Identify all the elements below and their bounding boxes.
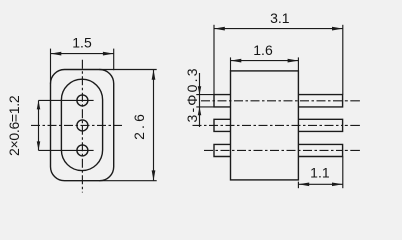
left pin 3 (bottom) xyxy=(214,144,231,156)
hole 1 (top) xyxy=(77,95,88,106)
front view inner stadium outline xyxy=(61,79,102,170)
dimension 2x0.6=1.2 (hole pitch) xyxy=(38,100,40,150)
top pin centerline right stub xyxy=(345,100,360,102)
dimension 1.5 (front view width) xyxy=(51,49,114,84)
svg-text:2.6: 2.6 xyxy=(131,111,147,140)
side view top pin centerline xyxy=(201,100,343,102)
svg-text:3.1: 3.1 xyxy=(270,10,290,26)
left pin 2 (middle) xyxy=(214,119,231,131)
hole 3 crosshair / extension line xyxy=(39,149,94,151)
hole 1 crosshair / extension line xyxy=(39,99,94,101)
dimension 3.1 (side view overall length) xyxy=(214,25,343,95)
left pin 1 (top) xyxy=(214,95,231,107)
svg-text:1.1: 1.1 xyxy=(310,164,330,180)
dimension 2.6 (front view height) xyxy=(99,70,157,181)
right pin 3 (bottom) xyxy=(298,144,342,156)
svg-text:2×0.6=1.2: 2×0.6=1.2 xyxy=(6,95,22,156)
svg-text:1.5: 1.5 xyxy=(72,35,92,51)
side view bottom pin centerline xyxy=(204,149,343,151)
hole 3 (bottom) xyxy=(77,145,88,156)
middle pin centerline right stub xyxy=(345,124,360,126)
side view middle pin centerline xyxy=(193,124,343,126)
front view vertical centerline xyxy=(81,60,83,193)
dimension 0.3 (pin thickness) xyxy=(196,73,214,127)
svg-text:1.6: 1.6 xyxy=(253,42,273,58)
front view horizontal centerline xyxy=(31,124,122,126)
bottom pin centerline right stub xyxy=(345,149,360,151)
dimension 1.6 (body width) xyxy=(231,57,299,71)
right pin 1 (top) xyxy=(298,95,342,107)
hole 2 (middle) xyxy=(77,120,88,131)
front view outer body outline xyxy=(51,70,114,181)
right pin 2 (middle) xyxy=(298,119,342,131)
svg-text:3-Φ0.3: 3-Φ0.3 xyxy=(184,66,200,122)
dimension 1.1 (right pin length) xyxy=(298,157,342,189)
side view body rectangle xyxy=(214,71,343,180)
